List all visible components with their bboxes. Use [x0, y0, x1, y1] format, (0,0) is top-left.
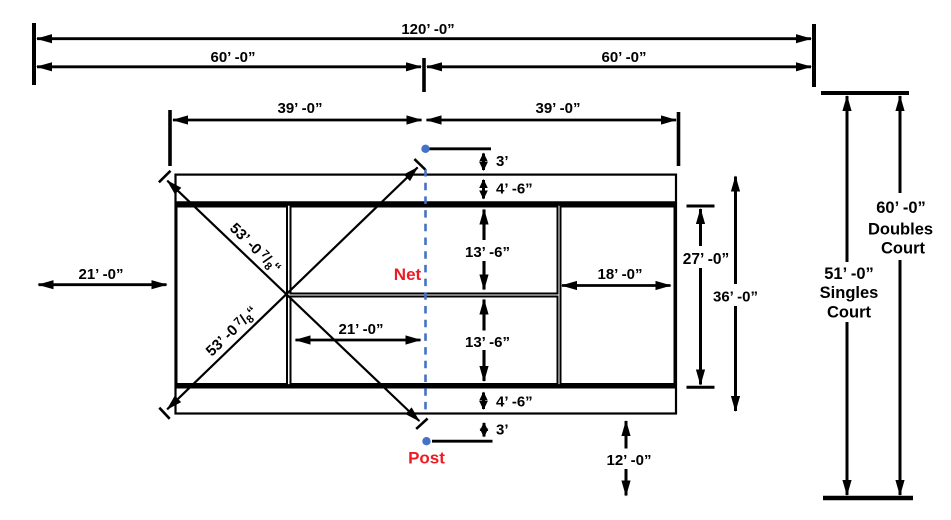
svg-text:3’: 3’ — [496, 422, 509, 439]
svg-text:13’ -6”: 13’ -6” — [465, 334, 510, 351]
svg-text:60’ -0”: 60’ -0” — [601, 49, 646, 66]
dimension 4'-6" bottom arrow — [482, 393, 485, 410]
svg-text:60’ -0”: 60’ -0” — [210, 49, 255, 66]
fence line bottom cap — [823, 496, 913, 501]
dimension 21'-0" far-left arrow — [39, 283, 167, 286]
dimension 13'-6" bottom arrow upper segment — [482, 300, 485, 331]
svg-text:27’ -0”: 27’ -0” — [683, 251, 730, 268]
dimension 12'-0" arrow upper segment — [625, 421, 628, 449]
dimension 120'-0" right extension tick — [812, 24, 816, 87]
dimension 60'-0" left arrow line — [37, 65, 421, 68]
dimension 36'-0" arrow upper segment — [734, 177, 737, 285]
post bottom bar — [432, 440, 493, 443]
svg-text:60’ -0”: 60’ -0” — [876, 199, 926, 217]
right backcourt box — [561, 207, 675, 385]
net top bar — [430, 147, 492, 150]
net line (blue dashed) — [424, 169, 427, 410]
dimension 120'-0" left extension tick — [32, 23, 36, 85]
post bottom dot — [422, 437, 430, 445]
svg-text:Singles: Singles — [820, 284, 879, 302]
diagonal dimension B (bottom-left to top-right) — [167, 167, 417, 409]
svg-text:12’ -0”: 12’ -0” — [606, 452, 651, 469]
dimension 3' top arrow — [482, 154, 485, 171]
svg-text:Post: Post — [408, 449, 445, 468]
dimension 4'-6" top arrow — [482, 180, 485, 199]
diagonal B top-right tick — [414, 159, 425, 169]
dimension 27'-0" arrow lower segment — [699, 268, 702, 385]
dimension 39'-0" right extension tick — [677, 112, 681, 166]
dimension 60'-0" right arrow line — [427, 65, 811, 68]
fence line top cap — [821, 91, 909, 95]
diagonal A bottom-right tick — [416, 419, 427, 429]
singles sideline top (thick) — [175, 201, 677, 205]
diagonal B bottom-left tick — [159, 408, 169, 419]
dimension 39'-0" right arrow line — [427, 119, 677, 122]
dimension 51'-0" arrow lower segment — [846, 322, 849, 495]
svg-text:Court: Court — [827, 304, 871, 322]
dimension 27'-0" bottom cap — [687, 386, 715, 389]
svg-text:51’ -0”: 51’ -0” — [824, 265, 874, 283]
svg-text:53’ -0 7/8“: 53’ -0 7/8“ — [203, 303, 263, 361]
dimension 39'-0" left extension tick — [168, 110, 172, 166]
svg-text:Court: Court — [881, 240, 925, 258]
svg-text:13’ -6”: 13’ -6” — [465, 244, 510, 261]
dimension 12'-0" arrow lower segment — [625, 469, 628, 496]
dimension 18'-0" arrow — [562, 284, 671, 287]
svg-text:39’ -0”: 39’ -0” — [277, 100, 322, 117]
dimension 60'-0" doubles arrow lower segment — [899, 260, 902, 495]
svg-text:36’ -0”: 36’ -0” — [713, 289, 758, 306]
diagonal A top-left tick — [159, 171, 171, 183]
svg-text:4’ -6”: 4’ -6” — [496, 181, 533, 198]
svg-text:39’ -0”: 39’ -0” — [535, 100, 580, 117]
dimension 21'-0" inner arrow — [296, 339, 421, 342]
singles sideline bottom (thick) — [175, 384, 677, 388]
dimension 36'-0" arrow lower segment — [734, 306, 737, 411]
svg-text:18’ -0”: 18’ -0” — [597, 266, 642, 283]
dimension 60'-0" center tick — [422, 58, 426, 92]
dimension 13'-6" top arrow lower segment — [482, 261, 485, 290]
dimension 120'-0" arrow line — [37, 37, 811, 40]
dimension 13'-6" bottom arrow lower segment — [482, 350, 485, 381]
svg-text:Net: Net — [394, 265, 422, 284]
svg-text:21’ -0”: 21’ -0” — [338, 321, 383, 338]
svg-text:3’: 3’ — [496, 153, 509, 170]
dimension 3' bottom arrow — [483, 423, 486, 437]
dimension 60'-0" doubles arrow upper segment — [899, 96, 902, 193]
svg-text:21’ -0”: 21’ -0” — [78, 266, 123, 283]
court outer boundary (doubles court) — [176, 175, 677, 414]
dimension 13'-6" top arrow upper segment — [482, 210, 485, 241]
svg-text:53’ -0 7/8“: 53’ -0 7/8“ — [225, 220, 285, 278]
left backcourt box — [177, 207, 288, 385]
dimension 27'-0" arrow upper segment — [699, 209, 702, 246]
net top post dot — [421, 145, 429, 153]
dimension 27'-0" top cap — [687, 205, 715, 208]
svg-text:4’ -6”: 4’ -6” — [496, 394, 533, 411]
lower service box — [291, 297, 558, 385]
svg-text:120’ -0”: 120’ -0” — [401, 21, 454, 38]
dimension 39'-0" left arrow line — [173, 119, 422, 122]
diagonal dimension A (top-left to bottom-right) — [167, 181, 419, 421]
svg-text:Doubles: Doubles — [868, 221, 933, 239]
dimension 51'-0" arrow upper segment — [846, 96, 849, 262]
upper service box — [291, 207, 558, 294]
